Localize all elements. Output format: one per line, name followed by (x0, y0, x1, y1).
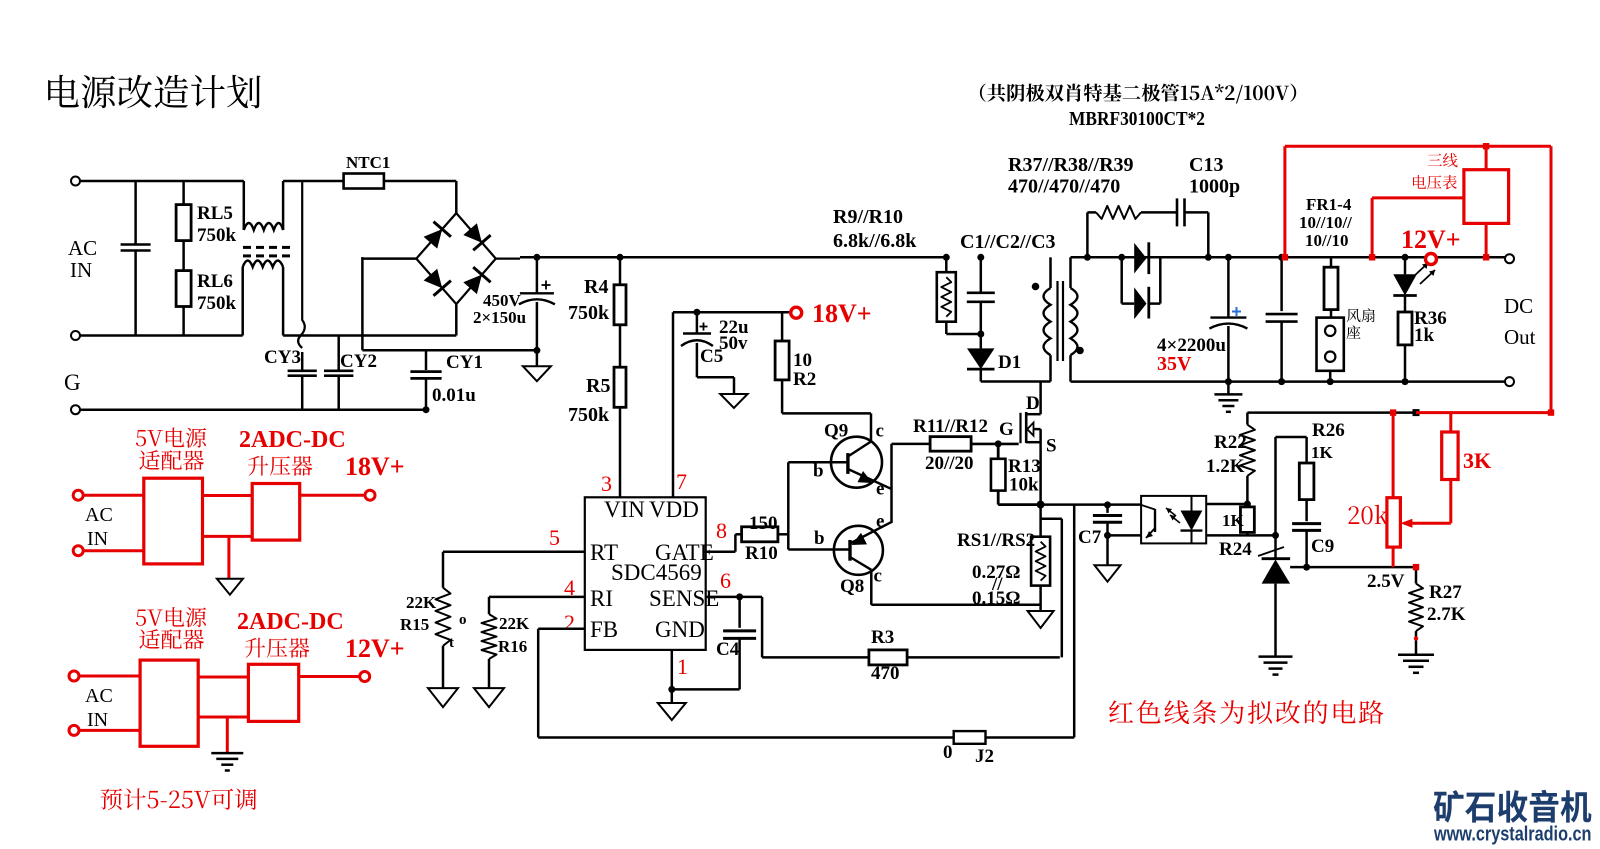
svg-text:R37//R38//R39: R37//R38//R39 (1008, 154, 1134, 176)
svg-text:10k: 10k (1009, 475, 1039, 496)
svg-text:C4: C4 (716, 639, 740, 660)
svg-text:RS1//RS2: RS1//RS2 (957, 530, 1035, 551)
svg-text:R3: R3 (871, 627, 894, 648)
svg-text:FB: FB (590, 617, 618, 642)
svg-text:18V+: 18V+ (345, 452, 405, 481)
svg-text:R27: R27 (1429, 582, 1462, 603)
svg-text:c: c (876, 420, 884, 441)
svg-text:AC: AC (85, 504, 113, 526)
svg-text:20//20: 20//20 (925, 453, 974, 474)
svg-text:C7: C7 (1078, 527, 1102, 548)
svg-text:GND: GND (655, 617, 705, 642)
svg-text:C9: C9 (1311, 536, 1334, 557)
svg-text:CY1: CY1 (446, 352, 483, 373)
svg-text:3K: 3K (1463, 448, 1491, 473)
svg-text:VIN: VIN (604, 497, 645, 522)
svg-text:DC: DC (1504, 294, 1533, 318)
svg-text:MBRF30100CT*2: MBRF30100CT*2 (1069, 108, 1205, 130)
svg-text:R9//R10: R9//R10 (833, 206, 903, 228)
svg-text:S: S (1046, 436, 1057, 457)
svg-text:J2: J2 (975, 746, 994, 767)
svg-text:0: 0 (943, 742, 953, 763)
svg-text:R24: R24 (1219, 539, 1252, 560)
svg-text:c: c (874, 566, 882, 587)
svg-text:AC: AC (68, 236, 97, 260)
svg-text:1k: 1k (1414, 325, 1435, 346)
svg-text:3: 3 (601, 471, 612, 496)
svg-text:NTC1: NTC1 (346, 153, 390, 172)
svg-text:IN: IN (70, 258, 92, 282)
svg-text:1000p: 1000p (1189, 176, 1240, 198)
svg-text:CY3: CY3 (264, 347, 301, 368)
svg-text:10//10//: 10//10// (1299, 213, 1352, 232)
svg-text:2.5V: 2.5V (1367, 571, 1405, 592)
svg-text:e: e (876, 479, 884, 500)
svg-text:e: e (876, 511, 884, 532)
svg-text:1K: 1K (1311, 443, 1334, 462)
svg-text:22K: 22K (406, 593, 437, 612)
svg-text:o: o (459, 612, 467, 628)
svg-text:2×150u: 2×150u (473, 308, 526, 327)
svg-text:www.crystalradio.cn: www.crystalradio.cn (1433, 824, 1591, 846)
svg-text:R4: R4 (584, 276, 608, 298)
svg-text:R26: R26 (1312, 420, 1345, 441)
svg-text:AC: AC (85, 685, 113, 707)
svg-text:12V+: 12V+ (345, 634, 405, 663)
svg-text:470//470//470: 470//470//470 (1008, 176, 1120, 198)
svg-text:1K: 1K (1222, 511, 1245, 530)
svg-text:R10: R10 (745, 543, 778, 564)
svg-text:6: 6 (720, 568, 731, 593)
svg-text:750k: 750k (197, 225, 237, 246)
svg-text:2ADC-DC: 2ADC-DC (239, 427, 346, 453)
svg-text:Q8: Q8 (840, 576, 864, 597)
svg-text:Out: Out (1504, 325, 1536, 349)
svg-text:10: 10 (793, 350, 812, 371)
svg-text:0.01u: 0.01u (432, 385, 476, 406)
svg-text:750k: 750k (568, 302, 610, 324)
svg-text:SDC4569: SDC4569 (611, 560, 702, 585)
svg-text:R15: R15 (400, 615, 429, 634)
svg-text:0.15Ω: 0.15Ω (972, 588, 1020, 609)
svg-text:12V+: 12V+ (1401, 225, 1461, 254)
svg-text:CY2: CY2 (340, 351, 377, 372)
svg-text:6.8k//6.8k: 6.8k//6.8k (833, 230, 917, 252)
svg-text:7: 7 (676, 469, 687, 494)
svg-text:IN: IN (87, 528, 108, 550)
svg-text:35V: 35V (1157, 353, 1192, 375)
svg-text:IN: IN (87, 709, 108, 731)
svg-text:2: 2 (564, 610, 575, 635)
svg-text:R11//R12: R11//R12 (913, 416, 988, 437)
svg-text:5: 5 (549, 525, 560, 550)
svg-text:G: G (999, 419, 1014, 440)
svg-text:470: 470 (871, 663, 900, 684)
svg-text:750k: 750k (197, 293, 237, 314)
svg-text:R5: R5 (586, 375, 610, 397)
svg-text:50v: 50v (719, 333, 748, 354)
svg-text:1: 1 (677, 654, 688, 679)
svg-text:G: G (64, 370, 81, 395)
svg-text:FR1-4: FR1-4 (1306, 195, 1352, 214)
svg-text:R2: R2 (793, 369, 816, 390)
svg-text:18V+: 18V+ (812, 299, 872, 328)
svg-text:1.2K: 1.2K (1206, 456, 1245, 477)
svg-text:R16: R16 (498, 637, 527, 656)
svg-text:22K: 22K (499, 614, 530, 633)
svg-text:10//10: 10//10 (1305, 231, 1348, 250)
svg-text:b: b (813, 461, 824, 482)
svg-text:750k: 750k (568, 404, 610, 426)
svg-text:C13: C13 (1189, 154, 1223, 176)
svg-text:C1//C2//C3: C1//C2//C3 (960, 231, 1056, 253)
svg-text:VDD: VDD (649, 497, 699, 522)
svg-text:D: D (1026, 393, 1040, 414)
svg-text:RI: RI (590, 586, 613, 611)
svg-text:D1: D1 (998, 352, 1021, 373)
svg-text:SENSE: SENSE (649, 586, 719, 611)
svg-text:R22: R22 (1214, 432, 1247, 453)
svg-text:RL5: RL5 (197, 203, 233, 224)
svg-text:2.7K: 2.7K (1427, 604, 1466, 625)
svg-text:b: b (814, 528, 825, 549)
svg-text:C5: C5 (700, 346, 723, 367)
svg-text:t: t (449, 635, 454, 651)
svg-text:2ADC-DC: 2ADC-DC (237, 609, 344, 635)
svg-text:8: 8 (716, 518, 727, 543)
svg-text:Q9: Q9 (824, 420, 848, 441)
svg-text:RL6: RL6 (197, 271, 233, 292)
svg-text:150: 150 (749, 513, 778, 534)
